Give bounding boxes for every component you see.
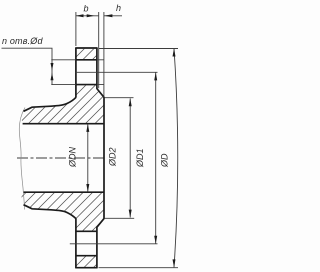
hatch bottom plate band [76,256,97,267]
hole dia d arrows [51,63,54,71]
bore bottom edge [24,191,104,193]
D2 dimension line [129,98,131,217]
svg-text:ØD1: ØD1 [135,148,145,168]
D arrows [173,49,176,57]
dimension b line [76,15,99,17]
hatch top plate band [76,49,97,59]
svg-text:ØDN: ØDN [68,147,78,169]
hub outer profile top [24,97,76,111]
b arrow left [76,14,84,17]
top bolt hole center line [76,71,158,73]
svg-text:ØD: ØD [160,153,170,168]
hatch mid upper region: plate + boss + hub wedge [21,85,104,123]
hatch mid lower region: plate + boss + hub wedge [21,193,104,231]
b arrow right [87,14,95,17]
axis center line [17,157,105,159]
svg-text:ØD2: ØD2 [108,147,118,167]
h arrow [104,14,112,17]
break line (pipe cut) [19,108,25,210]
flange plate left edge [75,48,77,268]
D1 arrows [154,72,157,80]
top bolt hole edge extensions [51,60,104,85]
dimension b extension lines [76,12,99,88]
svg-text:b: b [84,4,89,14]
DN arrows [86,124,89,132]
top bolt hole edges [76,60,97,85]
svg-text:n отв.Ød: n отв.Ød [2,36,43,46]
leader line under label [2,48,53,60]
flange plate bottom edge [75,267,97,269]
bottom bolt hole center line [70,243,158,245]
hub outer profile bottom [24,205,76,219]
D dimension line (slightly bowed as in scan) [174,49,178,268]
bore top edge [23,123,104,125]
DN dimension line [87,124,89,192]
D extension lines [99,49,179,268]
svg-text:h: h [116,3,121,13]
hole dia d dimension line [51,60,53,85]
dimension h extension line [104,12,122,97]
D1 dimension line [155,72,157,243]
D2 arrows [129,98,132,106]
D2 extension lines [105,98,135,219]
bottom bolt hole edges [76,231,97,255]
flange plate top edge [75,47,97,49]
flange plate right edge + boss chamfers + face [97,48,104,268]
